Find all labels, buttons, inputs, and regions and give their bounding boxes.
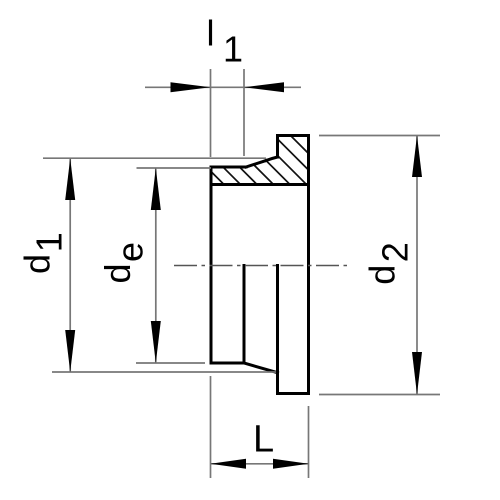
L left arrow (pointing left) <box>211 459 247 469</box>
flange left face (top) <box>276 136 279 158</box>
flange left face (bottom) <box>276 266 279 394</box>
L extension line left <box>210 376 212 478</box>
svg-text:d: d <box>361 265 402 285</box>
fillet to flange face <box>266 157 278 161</box>
d2 bottom arrow (down) <box>412 352 422 395</box>
de extension line bottom <box>136 362 205 364</box>
l1 extension line right <box>243 69 245 156</box>
svg-text:e: e <box>110 242 151 262</box>
collar top surface <box>211 166 246 169</box>
de extension line top <box>137 167 212 169</box>
flange right face <box>307 136 310 394</box>
label de (rotated) <box>97 242 151 284</box>
bottom taper <box>244 363 278 373</box>
label l1 <box>207 13 244 70</box>
svg-text:1: 1 <box>223 29 243 70</box>
L dimension line <box>211 463 309 465</box>
body outline <box>211 136 309 394</box>
d2 top arrow (up) <box>412 136 422 178</box>
d1 extension line top <box>43 157 266 159</box>
collar bottom surface <box>211 362 244 365</box>
l1 right arrow (outside, pointing left) <box>244 82 284 92</box>
svg-text:l: l <box>207 13 215 54</box>
bore line <box>211 183 309 186</box>
d2 dimension line <box>416 136 418 395</box>
svg-text:d: d <box>97 263 138 283</box>
svg-text:L: L <box>253 419 274 461</box>
svg-text:2: 2 <box>375 242 416 262</box>
L right arrow (pointing right) <box>273 459 309 469</box>
l1 extension line left <box>210 69 212 157</box>
flange top <box>278 134 309 137</box>
svg-text:1: 1 <box>29 232 70 252</box>
hatching of sectioned wall <box>160 120 382 210</box>
de bottom arrow (down) <box>151 321 161 363</box>
d1 extension line bottom <box>52 371 276 373</box>
svg-text:d: d <box>17 254 58 274</box>
taper start edge (bottom view) <box>243 266 246 364</box>
top taper <box>246 161 266 168</box>
L extension line right <box>308 406 310 478</box>
d2 extension line bottom <box>319 394 440 396</box>
d1 bottom arrow (down) <box>65 330 75 372</box>
thin dimension / extension lines <box>43 69 440 478</box>
l1 left arrow (outside, pointing right) <box>171 82 211 92</box>
d1 dimension line <box>69 158 71 372</box>
flange bottom <box>278 392 309 395</box>
label d2 (rotated) <box>361 242 415 285</box>
d1 top arrow (up) <box>65 158 75 200</box>
arrowheads <box>65 82 422 469</box>
centerline <box>174 265 347 267</box>
de top arrow (up) <box>151 168 161 210</box>
de dimension line <box>155 168 157 363</box>
label d1 (rotated) <box>17 232 70 274</box>
left end face <box>210 167 213 363</box>
d2 extension line top <box>319 135 440 137</box>
l1 dimension line <box>145 86 301 88</box>
